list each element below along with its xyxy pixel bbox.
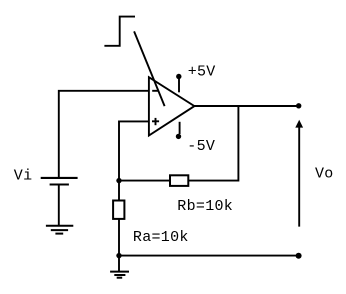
- resistor Ra: [113, 201, 124, 219]
- wire Ra to node B: [118, 219, 120, 256]
- wire from Vi battery - terminal to ground: [58, 185, 60, 226]
- ground symbol (bottom rail): [110, 272, 129, 278]
- node B junction dot: [116, 253, 121, 258]
- wire from Vi battery + terminal to inverting input: [59, 91, 149, 178]
- input step waveform symbol: [104, 17, 135, 46]
- wire node A to resistor Ra: [118, 181, 120, 201]
- Vo annotation arrow: [295, 120, 303, 227]
- svg-text:Rb=10k: Rb=10k: [177, 198, 233, 215]
- op-amp U1 non-inverting input marker (+): [152, 118, 159, 125]
- node A junction dot: [116, 178, 121, 183]
- bottom rail wire: [119, 255, 299, 257]
- svg-text:Vi: Vi: [14, 168, 33, 185]
- op-amp output wire: [194, 105, 298, 107]
- svg-text:Ra=10k: Ra=10k: [133, 229, 189, 246]
- +5V supply pin dot: [176, 74, 181, 79]
- battery Vi: [41, 178, 78, 185]
- wire from non-inverting input down to node A: [119, 121, 149, 180]
- output terminal dot: [296, 103, 301, 108]
- wire node A to resistor Rb: [119, 180, 170, 182]
- -5V supply pin dot: [176, 134, 181, 139]
- ground symbol (below Vi): [46, 226, 73, 234]
- +5V supply pin wire: [178, 79, 180, 92]
- svg-text:Vo: Vo: [315, 166, 334, 183]
- bottom rail terminal dot: [296, 253, 302, 259]
- wire node B to ground: [118, 256, 120, 272]
- resistor Rb: [170, 175, 188, 186]
- -5V supply pin wire: [179, 122, 181, 134]
- svg-text:+5V: +5V: [188, 63, 216, 80]
- pointer line from step waveform to op-amp: [134, 31, 165, 106]
- wire Rb to output node: [188, 106, 238, 181]
- svg-text:-5V: -5V: [187, 138, 215, 155]
- op-amp U1 inverting input marker (-): [152, 90, 158, 92]
- op-amp U1 triangle: [149, 77, 195, 135]
